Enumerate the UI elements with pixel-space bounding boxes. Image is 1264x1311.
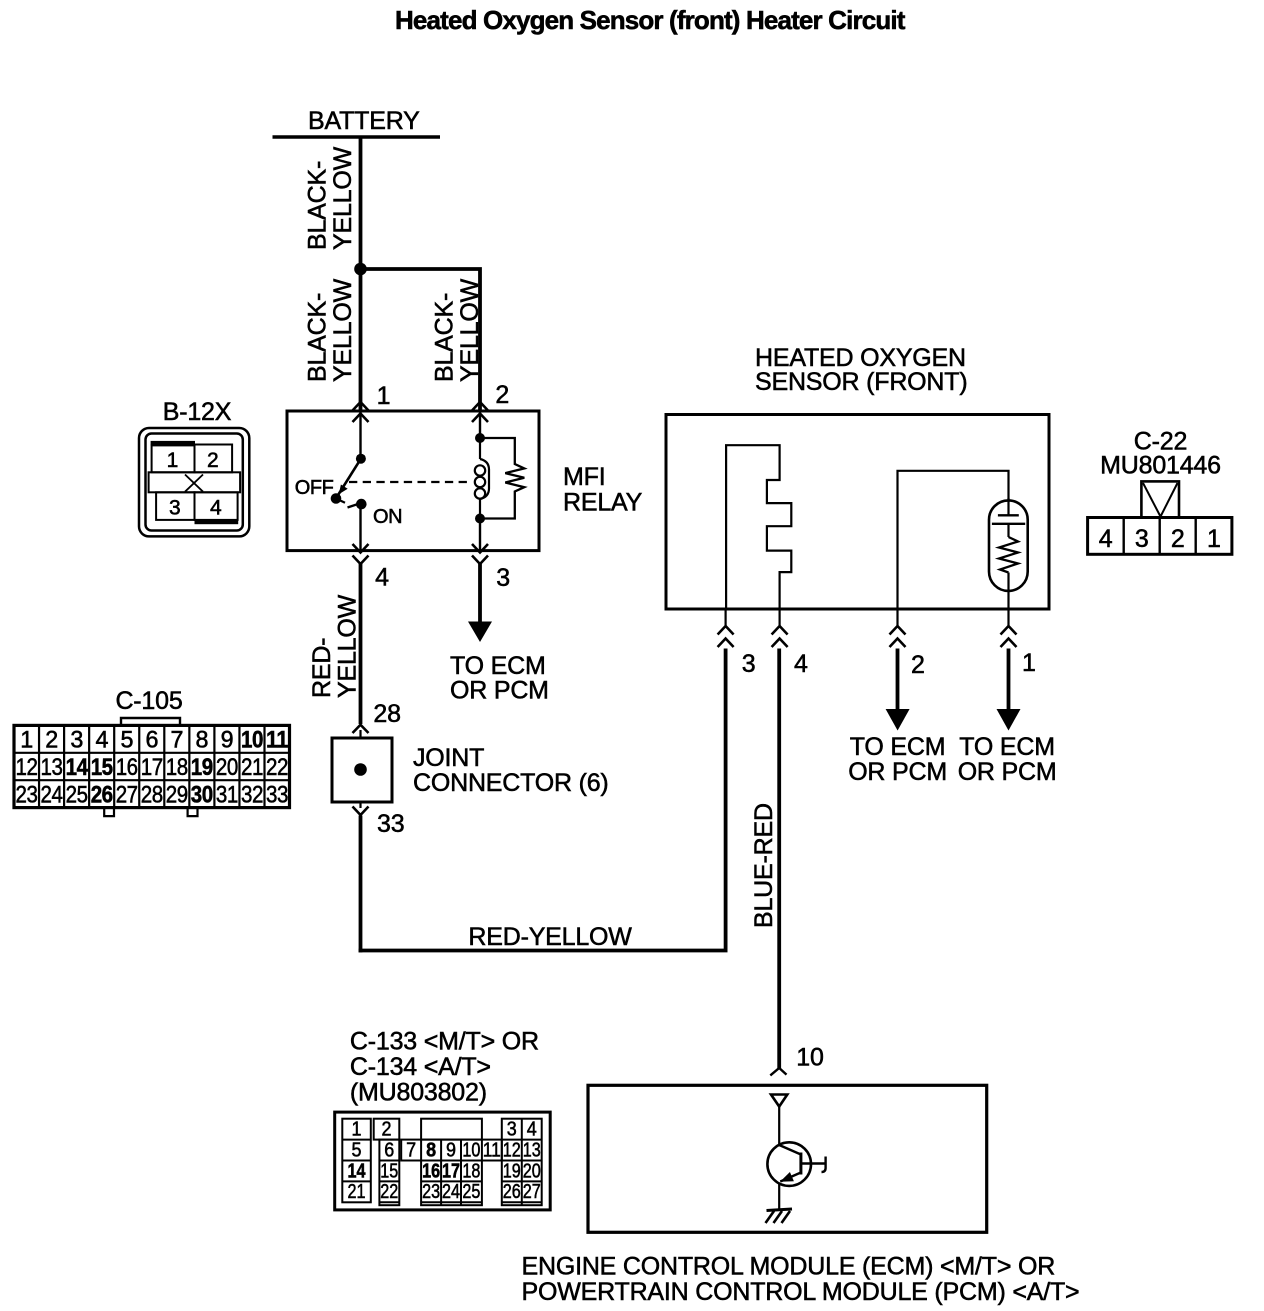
svg-text:YELLOW: YELLOW	[329, 146, 357, 250]
svg-text:4: 4	[1099, 525, 1113, 553]
sensor pin labels	[742, 649, 1036, 679]
svg-text:20: 20	[216, 754, 238, 781]
pin 4 connector chevrons	[353, 544, 369, 564]
B-12X X mark	[185, 475, 203, 492]
wire BLUE-RED sensor pin4 to ECM	[777, 649, 781, 1069]
svg-text:17: 17	[442, 1160, 460, 1182]
svg-text:3: 3	[742, 650, 756, 678]
svg-text:10: 10	[462, 1139, 480, 1161]
svg-text:13: 13	[41, 754, 63, 781]
sensor label	[755, 344, 967, 396]
svg-text:14: 14	[66, 754, 89, 781]
node coil bottom dot	[475, 514, 485, 524]
C-105 pin numbers	[16, 727, 289, 809]
svg-text:2: 2	[1171, 525, 1185, 553]
heater branch wire	[898, 471, 1009, 609]
B-12X keying bar top	[151, 441, 195, 446]
arrow to ECM (pin1)	[997, 709, 1021, 731]
svg-text:RED-YELLOW: RED-YELLOW	[468, 923, 632, 951]
sensor pin 3 chevrons	[718, 626, 734, 647]
C-133 connector grid	[335, 1112, 551, 1210]
svg-text:TO ECM: TO ECM	[850, 733, 946, 761]
svg-text:26: 26	[503, 1181, 521, 1203]
switch blade	[337, 459, 361, 498]
svg-text:24: 24	[41, 782, 63, 809]
svg-text:C-133 <M/T> OR: C-133 <M/T> OR	[350, 1028, 539, 1056]
switch pivot dot OFF	[331, 493, 342, 504]
relay resistor R1	[480, 438, 524, 519]
svg-text:12: 12	[503, 1139, 521, 1161]
wire sensor pin1 down	[1007, 649, 1011, 713]
svg-text:OFF: OFF	[295, 477, 334, 499]
svg-text:OR PCM: OR PCM	[958, 758, 1057, 786]
C-133/C-134 labels	[350, 1028, 539, 1107]
B-12X cell 3	[156, 492, 194, 520]
svg-text:BLACK-: BLACK-	[304, 161, 332, 250]
node coil top dot	[475, 433, 485, 443]
svg-text:11: 11	[483, 1139, 501, 1161]
svg-text:7: 7	[171, 727, 184, 754]
svg-text:28: 28	[373, 700, 400, 728]
svg-text:9: 9	[221, 727, 234, 754]
C-22 pin row	[1088, 518, 1232, 555]
svg-text:BATTERY: BATTERY	[308, 107, 420, 135]
svg-text:4: 4	[210, 497, 222, 520]
svg-text:33: 33	[377, 810, 404, 838]
svg-text:15: 15	[91, 754, 113, 781]
switch wire stub pin1	[359, 411, 361, 459]
svg-text:4: 4	[95, 727, 108, 754]
svg-text:33: 33	[266, 782, 288, 809]
svg-text:C-105: C-105	[115, 687, 182, 715]
wire sensor pin2 down	[896, 649, 900, 713]
C-105 latch tab	[121, 718, 180, 725]
svg-text:4: 4	[527, 1119, 537, 1141]
svg-text:18: 18	[462, 1160, 480, 1182]
svg-text:31: 31	[216, 782, 238, 809]
svg-text:C-134 <A/T>: C-134 <A/T>	[350, 1053, 491, 1081]
B-12X connector body	[139, 428, 249, 536]
svg-text:20: 20	[523, 1160, 541, 1182]
svg-text:3: 3	[70, 727, 83, 754]
C-22 latch V	[1143, 483, 1178, 516]
B-12X cell 2	[195, 445, 233, 473]
pin 2 connector chevrons	[472, 402, 488, 422]
wire relay pin3 down	[478, 563, 482, 623]
C-22 labels	[1100, 428, 1221, 480]
label TO ECM OR PCM (pin1)	[958, 733, 1057, 786]
svg-text:OR PCM: OR PCM	[848, 758, 947, 786]
svg-text:13: 13	[523, 1139, 541, 1161]
switch wire stub to pin4	[359, 504, 361, 551]
svg-text:ENGINE CONTROL MODULE (ECM) <M: ENGINE CONTROL MODULE (ECM) <M/T> OR	[522, 1253, 1056, 1281]
label JOINT CONNECTOR (6)	[413, 744, 609, 797]
svg-text:28: 28	[141, 782, 163, 809]
wire up to sensor pin 3	[724, 649, 728, 951]
wire triangle to transistor	[778, 1107, 780, 1146]
sensor element electrode	[726, 445, 791, 609]
coil wire stub to pin3	[479, 519, 481, 552]
svg-text:2: 2	[45, 727, 58, 754]
svg-text:POWERTRAIN CONTROL MODULE (PCM: POWERTRAIN CONTROL MODULE (PCM) <A/T>	[522, 1278, 1080, 1306]
sensor pin stubs below box	[726, 609, 1009, 627]
svg-text:16: 16	[422, 1160, 440, 1182]
svg-text:1: 1	[167, 449, 179, 472]
switch blade arrowhead	[339, 485, 348, 495]
svg-text:3: 3	[1135, 525, 1149, 553]
transistor Q1	[767, 1142, 825, 1186]
svg-text:32: 32	[241, 782, 263, 809]
label TO ECM OR PCM (pin2)	[848, 733, 947, 786]
heater element outline	[989, 500, 1028, 591]
svg-text:27: 27	[523, 1181, 541, 1203]
svg-text:25: 25	[462, 1181, 480, 1203]
svg-text:SENSOR (FRONT): SENSOR (FRONT)	[755, 368, 967, 396]
svg-text:2: 2	[382, 1119, 392, 1141]
wire label BLACK-YELLOW left	[304, 278, 358, 382]
wire relay pin4 down RED-YELLOW	[359, 563, 363, 724]
svg-text:26: 26	[91, 782, 113, 809]
svg-text:JOINT: JOINT	[413, 744, 484, 772]
svg-text:23: 23	[422, 1181, 440, 1203]
svg-text:1: 1	[377, 382, 391, 410]
svg-text:2: 2	[495, 381, 509, 409]
svg-text:7: 7	[406, 1139, 416, 1161]
ground	[766, 1209, 793, 1223]
relay label	[563, 463, 643, 517]
C-105 connector grid	[14, 725, 290, 807]
svg-text:19: 19	[503, 1160, 521, 1182]
heated oxygen sensor box	[666, 415, 1049, 610]
svg-text:1: 1	[20, 727, 33, 754]
sensor pin 1 chevrons	[1001, 626, 1017, 647]
wire label BLACK-YELLOW upper	[304, 146, 358, 250]
svg-text:YELLOW: YELLOW	[456, 278, 484, 382]
svg-text:MU801446: MU801446	[1100, 452, 1221, 480]
svg-text:6: 6	[146, 727, 159, 754]
svg-text:3: 3	[507, 1119, 517, 1141]
svg-text:18: 18	[166, 754, 188, 781]
C-22 pin numbers	[1099, 525, 1221, 553]
arrow to ECM (pin2)	[886, 709, 910, 731]
C-133 pin numbers	[348, 1119, 541, 1204]
switch top contact dot	[356, 454, 366, 464]
svg-text:19: 19	[191, 754, 213, 781]
B-12X middle band	[149, 472, 241, 492]
relay box U1	[287, 411, 539, 551]
label TO ECM OR PCM (relay)	[450, 652, 549, 705]
wire transistor to ground	[778, 1184, 780, 1211]
pin 3 connector chevrons	[472, 544, 488, 564]
svg-text:OR PCM: OR PCM	[450, 677, 549, 705]
joint connector dot	[354, 763, 367, 776]
ECM input triangle	[771, 1095, 787, 1107]
battery bus bar	[273, 135, 441, 139]
joint connector chevron bottom	[353, 807, 369, 816]
wire joint connector down	[359, 816, 363, 953]
svg-text:Heated Oxygen Sensor (front) H: Heated Oxygen Sensor (front) Heater Circ…	[395, 5, 906, 35]
switch ON tick	[348, 504, 359, 508]
svg-text:29: 29	[166, 782, 188, 809]
svg-text:22: 22	[380, 1181, 398, 1203]
svg-text:3: 3	[169, 497, 181, 520]
svg-text:YELLOW: YELLOW	[334, 594, 362, 698]
svg-text:5: 5	[352, 1139, 362, 1161]
svg-text:16: 16	[116, 754, 138, 781]
svg-text:12: 12	[16, 754, 38, 781]
svg-text:27: 27	[116, 782, 138, 809]
svg-text:ON: ON	[373, 506, 402, 528]
svg-text:2: 2	[911, 651, 925, 679]
svg-text:BLACK-: BLACK-	[431, 293, 459, 382]
svg-text:4: 4	[375, 564, 389, 592]
B-12X cell 1	[152, 445, 195, 472]
joint connector stub bottom	[359, 802, 361, 808]
heater internals	[992, 498, 1025, 609]
svg-text:1: 1	[1022, 649, 1036, 677]
svg-text:6: 6	[384, 1139, 394, 1161]
svg-text:YELLOW: YELLOW	[329, 278, 357, 382]
sensor pin 2 chevrons	[890, 626, 906, 647]
svg-text:TO ECM: TO ECM	[959, 733, 1055, 761]
wire label RED-YELLOW vertical	[308, 594, 362, 698]
svg-text:11: 11	[266, 727, 288, 754]
svg-text:30: 30	[191, 782, 213, 809]
ECM caption	[522, 1253, 1080, 1307]
svg-text:21: 21	[348, 1181, 366, 1203]
svg-text:25: 25	[66, 782, 88, 809]
svg-text:14: 14	[348, 1160, 367, 1182]
wire label BLACK-YELLOW right	[431, 278, 485, 382]
svg-text:1: 1	[352, 1119, 362, 1141]
svg-text:10: 10	[241, 727, 263, 754]
sensor pin 4 chevrons	[772, 626, 788, 647]
wire branch to relay pin 2	[361, 269, 481, 411]
pin 10 connector chevron	[770, 1068, 786, 1075]
B-12X keying bar bottom	[195, 520, 239, 524]
svg-text:3: 3	[496, 564, 510, 592]
switch pivot stub	[336, 499, 345, 503]
ECM box	[588, 1085, 987, 1232]
wire battery to relay pin 1	[359, 137, 363, 411]
node junction dot	[354, 263, 367, 276]
svg-text:10: 10	[796, 1044, 823, 1072]
svg-text:CONNECTOR (6): CONNECTOR (6)	[413, 769, 609, 797]
svg-text:8: 8	[426, 1139, 436, 1161]
svg-text:24: 24	[442, 1181, 460, 1203]
svg-text:MFI: MFI	[563, 463, 605, 491]
dashed actuation line	[349, 481, 469, 483]
svg-text:23: 23	[16, 782, 38, 809]
switch ON dot	[356, 499, 367, 510]
svg-text:17: 17	[141, 754, 163, 781]
svg-text:9: 9	[446, 1139, 456, 1161]
arrow to ECM (relay pin3)	[468, 622, 492, 643]
svg-text:2: 2	[207, 449, 219, 472]
svg-text:8: 8	[196, 727, 209, 754]
svg-text:22: 22	[266, 754, 288, 781]
joint connector stub top	[359, 730, 361, 739]
svg-text:BLACK-: BLACK-	[304, 293, 332, 382]
transistor emitter arrow	[780, 1172, 794, 1182]
joint connector chevron top	[353, 725, 369, 733]
svg-text:RELAY: RELAY	[563, 489, 643, 517]
pin 1 connector chevrons	[353, 402, 369, 422]
coil branch stub from pin2	[479, 411, 481, 438]
B-12X cell 4	[195, 492, 238, 520]
svg-text:B-12X: B-12X	[163, 398, 232, 426]
svg-text:5: 5	[120, 727, 133, 754]
svg-text:4: 4	[794, 650, 808, 678]
svg-text:21: 21	[241, 754, 263, 781]
joint connector box	[332, 738, 392, 802]
wire RED-YELLOW horizontal	[359, 949, 728, 953]
C-22 latch box	[1141, 481, 1179, 517]
relay coil L1	[475, 438, 489, 519]
svg-text:(MU803802): (MU803802)	[350, 1079, 487, 1107]
svg-text:15: 15	[380, 1160, 398, 1182]
C-105 mount tabs bottom	[104, 808, 197, 817]
svg-text:1: 1	[1207, 525, 1221, 553]
svg-text:BLUE-RED: BLUE-RED	[750, 803, 778, 928]
svg-text:RED-: RED-	[308, 638, 336, 698]
B-12X pin numbers	[167, 449, 222, 520]
